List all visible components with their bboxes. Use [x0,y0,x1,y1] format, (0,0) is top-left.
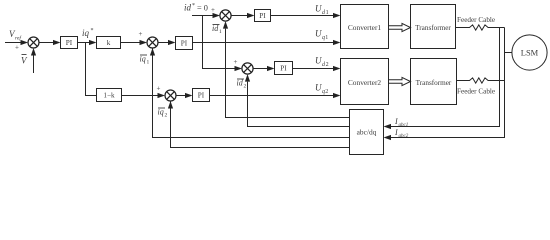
svg-text:U: U [315,29,322,39]
svg-text:Transformer: Transformer [416,79,452,87]
block abc/dq [350,110,384,155]
node id1bar label [212,24,222,35]
svg-text:I: I [394,117,398,126]
summing junction S1 [28,37,39,48]
node iq2bar label [158,108,168,119]
node Vref input label [9,29,22,42]
svg-text:Feeder Cable: Feeder Cable [457,88,495,96]
svg-text:PI: PI [198,91,205,99]
svg-text:abc2: abc2 [399,134,409,139]
arrowhead up into S5 [168,101,173,109]
node id*=0 label [184,3,208,13]
svg-text:Converter2: Converter2 [348,78,382,87]
arrowhead Iabc1 into abc/dq [384,124,392,129]
svg-text:1: 1 [147,60,150,66]
node Iabc1 label [394,117,408,128]
svg-text:U: U [315,83,322,93]
svg-text:1−k: 1−k [103,91,115,99]
svg-text:2: 2 [326,62,329,68]
block Transformer1 [411,5,456,49]
svg-text:= 0: = 0 [197,4,208,13]
svg-text:id: id [184,3,192,13]
block PI5 [193,89,210,102]
arrowhead into S2 [140,40,148,45]
wire id* input [192,15,214,17]
wire bus2 down to abc/dq Iabc2 [391,28,505,138]
block arrow Converter2 to Transformer2 [389,77,411,85]
svg-text:+: + [234,58,238,66]
svg-text:abc/dq: abc/dq [357,128,377,137]
wire PI5 to Converter2 lower input [210,95,335,97]
wire and resistor feeder cable 1 [456,25,505,30]
block PI3 [255,10,271,22]
wire and resistor feeder cable 2 [457,78,505,83]
arrowhead into S4 [235,66,243,71]
node Iabc2 label [394,128,409,139]
wire V feedback vertical [33,54,35,73]
svg-text:I: I [394,128,398,137]
svg-text:U: U [315,4,322,14]
svg-text:V: V [21,56,28,66]
block Converter1 [341,5,389,49]
arrowhead into S3 [213,13,221,18]
block PI2 [176,37,193,50]
svg-text:U: U [315,56,322,66]
arrowhead into summing junction S1 [21,40,29,45]
wire id1 feedback vertical and horizontal to abc/dq [226,29,350,118]
block PI4 [275,62,293,75]
svg-text:PI: PI [181,39,188,47]
wire 1-k to S5 [122,95,160,97]
node Vbar feedback label [21,55,28,66]
node Uq2 label [315,83,328,96]
svg-text:PI: PI [280,64,287,72]
svg-text:2: 2 [244,84,247,90]
wire iq2 feedback vertical and horizontal to abc/dq [171,101,350,148]
svg-text:PI: PI [259,12,266,20]
svg-text:2: 2 [165,113,168,119]
wire branch iq* down to 1-k row [86,43,97,96]
arrowhead up into S4 [245,74,250,82]
svg-text:LSM: LSM [521,48,539,58]
wire bus1 down to abc/dq Iabc1 [391,28,500,127]
summing junction S4 [242,63,253,74]
arrowhead into Converter1 upper [333,13,341,18]
svg-text:Converter1: Converter1 [348,23,382,32]
svg-text:iq: iq [158,108,164,117]
summing junction S2 [147,37,158,48]
wire S5 to PI5 [176,95,186,97]
wire k to S2 [121,42,142,44]
arrowhead into S5 [158,93,166,98]
block 1-k [97,89,122,102]
svg-text:+: + [139,30,143,38]
arrowhead up into S3 [223,21,228,29]
arrowhead into PI1 [53,40,61,45]
svg-text:+: + [157,85,161,93]
node id2bar label [237,79,247,90]
node Uq1 label [315,29,328,42]
wire LSM connector [505,52,513,54]
block k [97,37,121,49]
arrowhead up into S1 [31,48,36,56]
wire iq1 feedback vertical and horizontal to abc/dq [153,48,350,138]
arrowhead Iabc2 into abc/dq [384,135,392,140]
svg-text:Feeder Cable: Feeder Cable [457,16,495,24]
svg-text:PI: PI [66,39,73,47]
arrowhead into PI2 [168,40,176,45]
arrowhead into Converter2 upper [333,66,341,71]
node Ud1 label [315,4,329,17]
svg-text:Transformer: Transformer [415,24,451,32]
node Ud2 label [315,56,329,69]
arrowhead into Converter2 lower [333,93,341,98]
arrowhead up into S2 [150,48,155,56]
svg-text:1: 1 [325,35,328,41]
block Converter2 [341,59,389,105]
wire PI3 to Converter1 upper input [271,15,335,17]
wire PI1 to k with branch node [78,42,91,44]
wire S1 to PI1 [39,42,54,44]
svg-text:1: 1 [326,10,329,16]
block Transformer2 [411,59,457,105]
svg-text:iq: iq [140,55,146,64]
arrowhead into PI4 [267,66,275,71]
wire S4 to PI4 [253,68,268,70]
svg-text:k: k [107,39,111,47]
wire PI4 to Converter2 upper input [293,68,335,70]
svg-text:*: * [91,28,94,34]
svg-text:1: 1 [219,29,222,35]
node iq* label [82,28,94,38]
svg-text:2: 2 [325,89,328,95]
svg-text:abc1: abc1 [399,123,409,128]
block arrow Converter1 to Transformer1 [389,23,411,31]
summing junction S5 [165,90,176,101]
wire id2 feedback vertical and horizontal to abc/dq [248,82,350,127]
node iq1bar label [140,55,150,66]
arrowhead into Converter1 lower [333,40,341,45]
svg-text:iq: iq [82,28,90,38]
wire S2 to PI2 [158,42,170,44]
wire Vref input [5,42,22,44]
wire S3 to PI3 [231,15,248,17]
svg-text:+: + [15,44,19,52]
wire id* branch down to second d loop [203,16,237,69]
summing junction S3 [220,10,231,21]
wire PI2 to Converter1 lower input [193,42,335,44]
svg-text:*: * [192,3,195,9]
arrowhead into PI3 [247,13,255,18]
arrowhead into PI5 [185,93,193,98]
machine LSM [512,35,547,70]
svg-text:+: + [211,6,215,14]
arrowhead into k [89,40,97,45]
block PI1 [61,37,78,49]
